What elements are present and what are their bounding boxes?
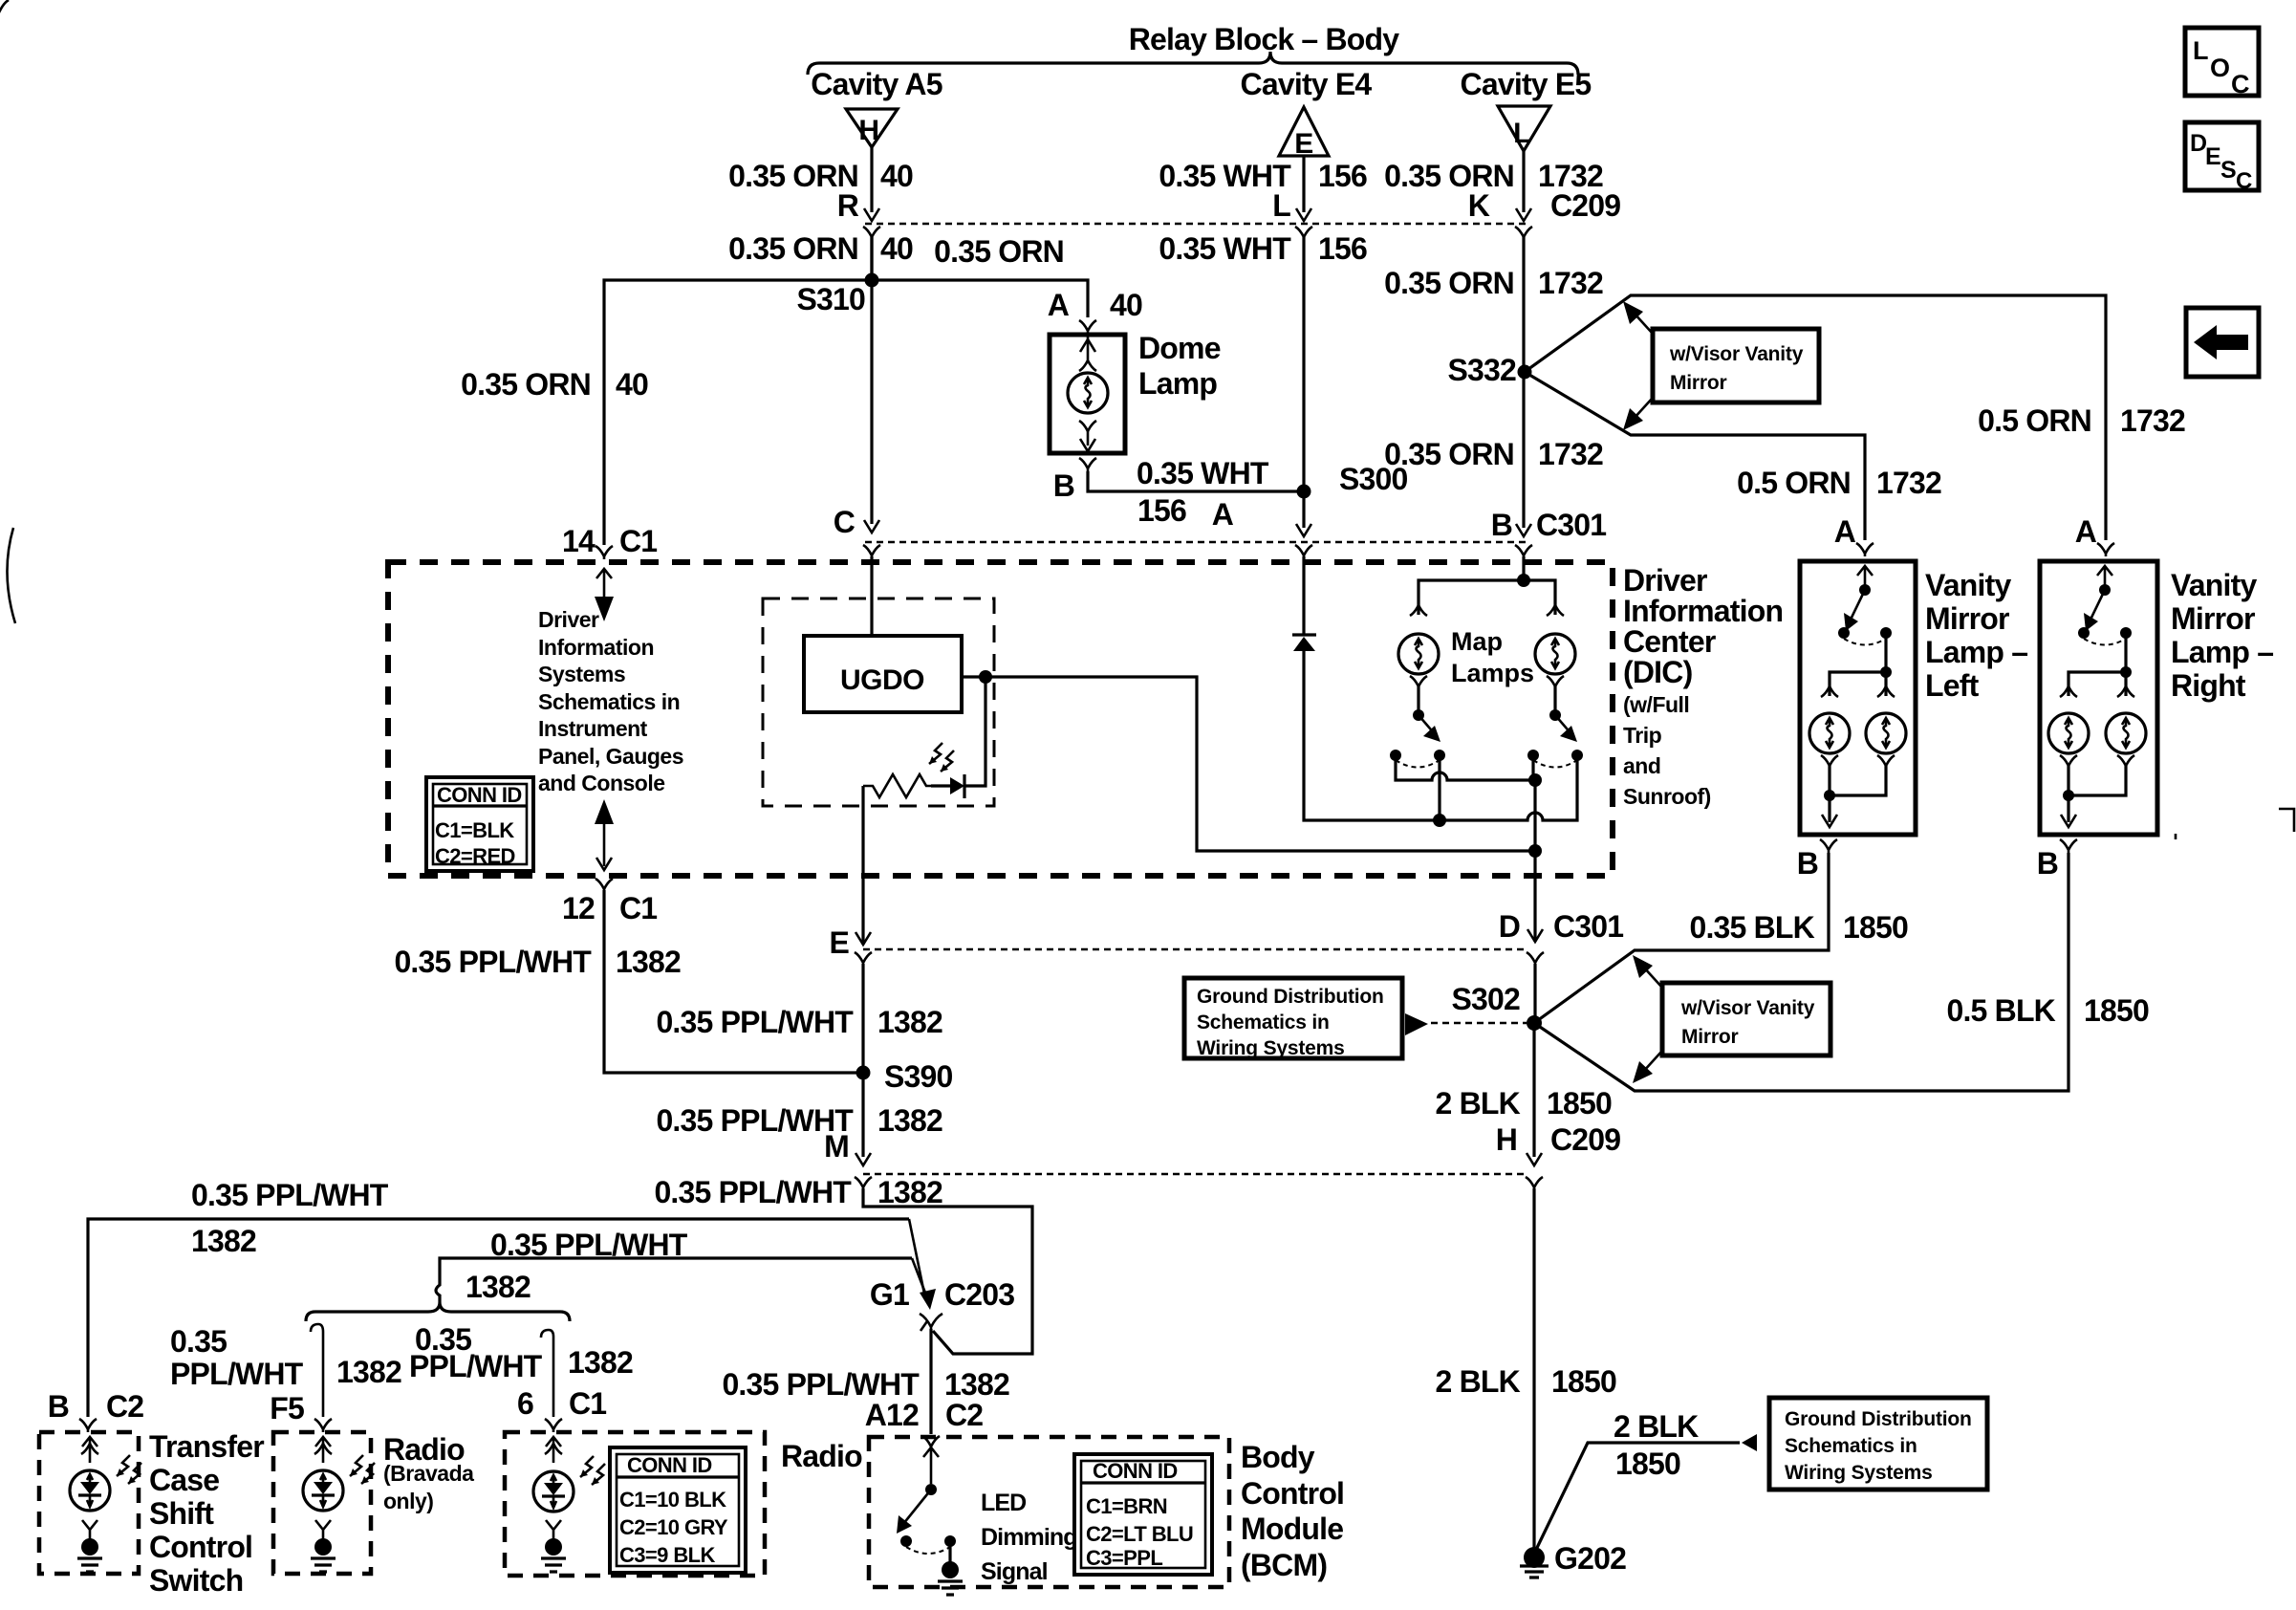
svg-text:0.35 ORN: 0.35 ORN (461, 367, 591, 402)
connector C209 dashed line (865, 223, 1529, 226)
svg-text:C1: C1 (619, 524, 657, 558)
svg-text:B: B (48, 1389, 69, 1424)
svg-text:2 BLK: 2 BLK (1614, 1409, 1699, 1444)
svg-text:0.35 PPL/WHT: 0.35 PPL/WHT (656, 1005, 854, 1039)
svg-text:156: 156 (1137, 493, 1186, 528)
svg-text:C1=BLK: C1=BLK (435, 818, 514, 842)
svg-text:C3=PPL: C3=PPL (1086, 1546, 1162, 1570)
wire E to S390 (861, 964, 864, 1157)
wire left vanity B to S302 (1534, 853, 1829, 1023)
svg-text:Ground Distribution: Ground Distribution (1197, 986, 1384, 1008)
svg-text:Dimming: Dimming (981, 1524, 1077, 1551)
pin B below left vanity (1820, 839, 1837, 853)
svg-text:B: B (1491, 508, 1512, 542)
svg-text:1850: 1850 (1547, 1086, 1612, 1120)
svg-text:14: 14 (562, 524, 596, 558)
bottom arrow (reference) (595, 799, 614, 824)
svg-text:1732: 1732 (1538, 437, 1603, 471)
svg-text:Cavity E4: Cavity E4 (1241, 67, 1373, 101)
svg-text:Wiring Systems: Wiring Systems (1197, 1037, 1345, 1059)
svg-text:Lamp –: Lamp – (1925, 635, 2027, 669)
UGDO output wire (962, 677, 1535, 851)
svg-text:Lamp: Lamp (1138, 366, 1217, 401)
svg-text:PPL/WHT: PPL/WHT (409, 1349, 543, 1383)
inner dashed box (763, 598, 994, 806)
svg-text:Switch: Switch (149, 1563, 243, 1598)
svg-text:C1=BRN: C1=BRN (1086, 1494, 1167, 1518)
wire 2 to radios brace (436, 1258, 912, 1302)
svg-text:B: B (1797, 846, 1818, 881)
svg-text:B: B (2037, 846, 2058, 881)
wire to BCM A12 (929, 1329, 932, 1434)
page scan artifact right (2279, 809, 2294, 832)
diode symbol (1292, 633, 1316, 636)
svg-text:C301: C301 (1553, 909, 1623, 944)
svg-text:only): only) (383, 1489, 433, 1513)
w/Visor Vanity Mirror callout box (S302) (1662, 983, 1830, 1055)
left lamp switch (1413, 709, 1424, 721)
svg-text:1382: 1382 (466, 1270, 531, 1304)
svg-text:156: 156 (1318, 159, 1367, 193)
svg-text:1382: 1382 (877, 1175, 942, 1209)
svg-text:Lamps: Lamps (1451, 659, 1534, 687)
wire S310 right branch to dome lamp A (872, 280, 1088, 317)
svg-text:0.35 ORN: 0.35 ORN (1384, 266, 1514, 300)
page scan artifact left (7, 528, 15, 623)
svg-text:C2=10 GRY: C2=10 GRY (619, 1515, 728, 1539)
converging wires with arrow (909, 1219, 925, 1298)
wire E5 down to C209 (1522, 151, 1525, 212)
svg-text:Information: Information (1623, 594, 1783, 628)
splice S302 (1527, 1015, 1542, 1031)
svg-text:0.35 ORN: 0.35 ORN (934, 234, 1064, 269)
wire C down into UGDO (870, 556, 873, 636)
svg-text:A: A (1834, 514, 1856, 549)
svg-text:Sunroof): Sunroof) (1623, 784, 1711, 809)
svg-text:w/Visor Vanity: w/Visor Vanity (1669, 343, 1804, 365)
branch to ground distribution reference (1534, 1443, 1740, 1554)
wire C209 to S310 (870, 237, 873, 280)
svg-text:E: E (1294, 128, 1313, 160)
connector C301 dashed line (865, 541, 1529, 544)
svg-text:w/Visor Vanity: w/Visor Vanity (1680, 997, 1815, 1019)
svg-text:Transfer: Transfer (149, 1429, 264, 1464)
svg-text:1732: 1732 (1538, 266, 1603, 300)
svg-text:L: L (1272, 188, 1290, 223)
wire right vanity B to S302 (1534, 853, 2069, 1091)
wire H down to C209 (870, 147, 873, 212)
svg-text:6: 6 (517, 1386, 533, 1421)
svg-text:D: D (1499, 909, 1520, 944)
svg-text:C: C (2231, 70, 2250, 98)
svg-text:F5: F5 (270, 1391, 304, 1425)
vanity left bulbs (1809, 713, 1850, 753)
svg-text:C2=RED: C2=RED (435, 844, 515, 868)
svg-text:Driver: Driver (1623, 563, 1707, 598)
svg-text:1382: 1382 (191, 1224, 256, 1258)
svg-text:40: 40 (616, 367, 648, 402)
svg-text:E: E (2205, 143, 2221, 170)
below bulbs (1410, 676, 1427, 686)
svg-text:2 BLK: 2 BLK (1436, 1364, 1521, 1399)
svg-text:Schematics in: Schematics in (538, 689, 680, 714)
CONN ID box (BCM) (1074, 1454, 1212, 1575)
svg-text:Mirror: Mirror (1681, 1026, 1739, 1048)
long wire to transfer case (88, 1219, 909, 1417)
svg-text:C1: C1 (619, 891, 657, 925)
svg-text:C209: C209 (1550, 188, 1620, 223)
map lamp feed from B (1522, 556, 1525, 580)
svg-text:Dome: Dome (1138, 331, 1221, 365)
svg-text:0.35 PPL/WHT: 0.35 PPL/WHT (722, 1367, 920, 1402)
wire E4 down to C209 (1302, 156, 1305, 212)
svg-text:Vanity: Vanity (2171, 568, 2257, 602)
svg-text:CONN ID: CONN ID (437, 783, 522, 807)
svg-text:Panel, Gauges: Panel, Gauges (538, 744, 683, 769)
wire S310 left branch to 14 C1 (604, 280, 872, 545)
svg-text:M: M (824, 1129, 849, 1164)
brace (radio pair) (306, 1302, 570, 1321)
switch contact wiring (1396, 755, 1535, 780)
svg-text:C203: C203 (944, 1277, 1014, 1312)
svg-text:0.35 WHT: 0.35 WHT (1137, 456, 1269, 490)
svg-text:1850: 1850 (1843, 910, 1908, 945)
svg-text:Mirror: Mirror (2171, 601, 2255, 636)
svg-text:L: L (1513, 118, 1530, 149)
wire resistor down to E (C301) (861, 786, 864, 945)
svg-text:C209: C209 (1550, 1122, 1620, 1157)
dome lamp box (1050, 335, 1125, 453)
wire down to D C301 (1533, 851, 1536, 942)
map lamp bulbs (1398, 634, 1439, 674)
svg-text:Wiring Systems: Wiring Systems (1785, 1462, 1933, 1484)
svg-text:Mirror: Mirror (1670, 372, 1727, 394)
svg-text:H: H (1496, 1122, 1517, 1157)
svg-text:0.35 ORN: 0.35 ORN (728, 231, 858, 266)
svg-text:C2: C2 (945, 1398, 983, 1432)
svg-text:UGDO: UGDO (840, 664, 924, 696)
svg-text:E: E (829, 925, 849, 960)
connector triangle L (1498, 106, 1550, 151)
svg-text:C2=LT BLU: C2=LT BLU (1086, 1522, 1193, 1546)
svg-text:0.5 BLK: 0.5 BLK (1946, 993, 2055, 1028)
svg-text:1732: 1732 (1876, 466, 1941, 500)
splice S310 (865, 273, 879, 288)
resistor (863, 774, 931, 797)
svg-text:Systems: Systems (538, 662, 625, 686)
svg-text:0.35 ORN: 0.35 ORN (1384, 159, 1514, 193)
wire S332 upper branch to vanity right A (1525, 295, 2106, 540)
svg-text:H: H (858, 115, 878, 146)
svg-text:G202: G202 (1554, 1541, 1626, 1576)
connector triangle H (846, 109, 898, 147)
svg-text:1382: 1382 (944, 1367, 1009, 1402)
svg-text:1382: 1382 (877, 1103, 942, 1138)
svg-text:Case: Case (149, 1463, 219, 1497)
svg-text:Schematics in: Schematics in (1785, 1435, 1917, 1457)
svg-text:0.35 PPL/WHT: 0.35 PPL/WHT (490, 1228, 688, 1262)
svg-text:CONN ID: CONN ID (627, 1453, 712, 1477)
svg-text:S: S (2220, 157, 2237, 184)
svg-text:Map: Map (1451, 627, 1503, 656)
svg-text:S332: S332 (1447, 353, 1516, 387)
svg-text:Driver: Driver (538, 607, 599, 632)
svg-text:R: R (837, 188, 859, 223)
svg-text:A: A (2075, 514, 2097, 549)
svg-text:1850: 1850 (1551, 1364, 1616, 1399)
svg-text:Body: Body (1241, 1440, 1315, 1474)
Ground Distribution box (G202) (1769, 1398, 1987, 1490)
wire M jog to C203 return (863, 1188, 1032, 1354)
svg-text:A: A (1048, 288, 1070, 322)
pin B (dome) (1079, 458, 1096, 471)
svg-text:and Console: and Console (538, 771, 665, 795)
svg-text:K: K (1468, 188, 1490, 223)
svg-text:A: A (1212, 497, 1234, 532)
wire S332 lower branch to vanity left A (1525, 372, 1865, 540)
svg-text:C1=10 BLK: C1=10 BLK (619, 1488, 726, 1512)
svg-text:C: C (834, 505, 856, 539)
svg-text:PPL/WHT: PPL/WHT (170, 1357, 304, 1391)
dome bulb (1068, 373, 1108, 413)
svg-text:Module: Module (1241, 1512, 1343, 1546)
connector triangle E (points up) (1279, 107, 1329, 156)
DESC box (2185, 122, 2259, 190)
svg-text:A12: A12 (865, 1398, 919, 1432)
svg-text:40: 40 (880, 231, 913, 266)
svg-text:Radio: Radio (781, 1439, 862, 1473)
svg-text:Lamp –: Lamp – (2171, 635, 2273, 669)
svg-text:0.5 ORN: 0.5 ORN (1978, 403, 2091, 438)
svg-text:156: 156 (1318, 231, 1367, 266)
svg-text:2 BLK: 2 BLK (1436, 1086, 1521, 1120)
svg-text:Instrument: Instrument (538, 716, 648, 741)
svg-text:(Bravada: (Bravada (383, 1461, 474, 1486)
svg-text:Signal: Signal (981, 1558, 1048, 1585)
w/Visor Vanity Mirror callout box (S332) (1653, 329, 1819, 402)
bracket (1419, 580, 1555, 615)
wire 12C1 down to S390 (604, 890, 863, 1073)
diode (LED) (963, 774, 965, 798)
Ground Distribution box (S302) (1184, 978, 1402, 1058)
svg-text:(DIC): (DIC) (1623, 655, 1693, 689)
svg-text:Right: Right (2171, 668, 2246, 703)
svg-text:0.35 PPL/WHT: 0.35 PPL/WHT (191, 1178, 389, 1212)
svg-text:Cavity E5: Cavity E5 (1461, 67, 1592, 101)
right lamp switch (1549, 709, 1561, 721)
diode wire from A (1302, 556, 1305, 635)
svg-text:0.5 ORN: 0.5 ORN (1737, 466, 1851, 500)
svg-text:1382: 1382 (877, 1005, 942, 1039)
svg-text:CONN ID: CONN ID (1093, 1459, 1178, 1483)
svg-text:1382: 1382 (336, 1355, 401, 1389)
svg-text:Control: Control (149, 1530, 252, 1564)
radio branch hooks (311, 1324, 323, 1417)
svg-text:0.35 PPL/WHT: 0.35 PPL/WHT (654, 1175, 852, 1209)
svg-text:1382: 1382 (616, 945, 681, 979)
wire S302 down to H C209 (1534, 964, 1535, 1157)
CONN ID box (radio) (610, 1447, 746, 1573)
splice S332 (1518, 365, 1532, 380)
double arrow top (reference to Driver Information text) (596, 569, 612, 598)
ground G202 (1524, 1547, 1545, 1568)
CONN ID box (C1=BLK / C2=RED) (426, 777, 533, 871)
svg-text:40: 40 (1110, 288, 1142, 322)
svg-text:Schematics in: Schematics in (1197, 1012, 1330, 1033)
svg-text:40: 40 (880, 159, 913, 193)
svg-text:Vanity: Vanity (1925, 568, 2011, 602)
svg-text:12: 12 (562, 891, 595, 925)
svg-text:O: O (2210, 54, 2230, 82)
C301 D dashed row (863, 948, 1527, 951)
brace relay block (808, 52, 1578, 75)
svg-text:B: B (1053, 468, 1074, 503)
svg-text:(w/Full: (w/Full (1623, 692, 1689, 717)
UGDO box (804, 636, 962, 712)
svg-text:1850: 1850 (2084, 993, 2149, 1028)
dashed stub + arrow to ground dist box (1431, 1022, 1527, 1025)
svg-text:Control: Control (1241, 1476, 1344, 1511)
svg-text:1850: 1850 (1615, 1447, 1680, 1481)
svg-text:C1: C1 (569, 1386, 606, 1421)
svg-text:C2: C2 (106, 1389, 143, 1424)
svg-text:0.35 BLK: 0.35 BLK (1689, 910, 1814, 945)
lightning arrows at LED (929, 743, 954, 772)
svg-text:Trip: Trip (1623, 723, 1662, 748)
splice S300 (1297, 485, 1311, 499)
svg-text:Cavity A5: Cavity A5 (811, 67, 942, 101)
svg-text:1732: 1732 (2120, 403, 2185, 438)
svg-text:(BCM): (BCM) (1241, 1548, 1327, 1582)
svg-text:Mirror: Mirror (1925, 601, 2009, 636)
C209 lower dashed row (863, 1173, 1527, 1176)
svg-text:G1: G1 (870, 1277, 909, 1312)
LED dimmer branch (964, 677, 986, 786)
svg-text:LED: LED (981, 1490, 1026, 1516)
svg-text:0.35: 0.35 (170, 1324, 227, 1359)
svg-text:Information: Information (538, 635, 654, 660)
svg-text:1382: 1382 (568, 1345, 633, 1380)
svg-text:0.35 ORN: 0.35 ORN (1384, 437, 1514, 471)
svg-text:S302: S302 (1451, 982, 1520, 1016)
svg-text:0.35 WHT: 0.35 WHT (1159, 231, 1291, 266)
svg-text:S390: S390 (884, 1059, 953, 1094)
svg-text:0.35 PPL/WHT: 0.35 PPL/WHT (394, 945, 592, 979)
svg-text:Shift: Shift (149, 1496, 214, 1531)
svg-text:S310: S310 (796, 282, 865, 316)
svg-text:C: C (2236, 168, 2252, 194)
splice S390 (856, 1066, 871, 1080)
svg-text:Ground Distribution: Ground Distribution (1785, 1408, 1972, 1430)
internal: feed arrow + switch (1857, 566, 1873, 588)
svg-text:Center: Center (1623, 624, 1716, 659)
svg-text:Relay Block – Body: Relay Block – Body (1129, 22, 1400, 56)
svg-text:Left: Left (1925, 668, 1980, 703)
svg-text:and: and (1623, 753, 1660, 778)
back arrow box (2186, 308, 2259, 377)
LOC box (2185, 28, 2259, 96)
svg-text:C3=9 BLK: C3=9 BLK (619, 1543, 715, 1567)
wire dome B to S300 (1088, 471, 1304, 491)
svg-text:L: L (2193, 36, 2209, 65)
svg-text:C301: C301 (1536, 508, 1606, 542)
